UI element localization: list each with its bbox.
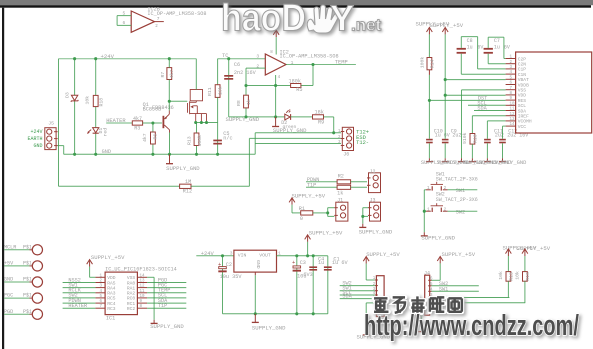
wire SCL oled: [468, 104, 506, 106]
svg-text:0: 0: [300, 216, 303, 222]
svg-text:R8: R8: [236, 100, 242, 106]
svg-text:T12-: T12-: [356, 140, 369, 146]
wire VBAT: [445, 79, 505, 81]
junction gnd R18: [94, 153, 97, 156]
wire C4 branch: [312, 256, 314, 314]
ground symbol SUPPLY_GND main rail: [166, 154, 173, 163]
junction source stub 3: [205, 121, 208, 124]
svg-text:R6: R6: [153, 134, 159, 140]
svg-text:2: 2: [444, 207, 447, 212]
wire source sense line: [196, 122, 218, 124]
svg-text:3: 3: [256, 54, 259, 60]
wire IC2B pin6: [117, 24, 131, 26]
connector J4 box: [425, 275, 430, 315]
svg-text:SUPPLY_+5V: SUPPLY_+5V: [430, 22, 464, 29]
resistor R7: [167, 68, 172, 80]
wire SW1 J4: [432, 290, 479, 292]
wire R1 to J1: [313, 212, 328, 214]
junction source stub 1: [194, 121, 197, 124]
wire R18 branch: [95, 59, 97, 155]
wire T12- line: [255, 143, 341, 145]
ground symbol SUPPLY_GND switches: [421, 232, 428, 236]
svg-text:VSS: VSS: [518, 88, 527, 94]
wire net SDA IC1 right: [147, 302, 186, 304]
svg-text:RA2: RA2: [127, 291, 136, 297]
svg-text:R16: R16: [525, 272, 531, 281]
svg-text:RC3: RC3: [107, 306, 116, 312]
wire SW2 to J7: [340, 285, 375, 287]
wire SDA oled: [474, 110, 506, 112]
junction C3 +5V: [295, 254, 298, 257]
wire C2N: [488, 63, 505, 65]
pin 2 oled C2N: [506, 63, 516, 65]
wire earth line J5 to R12: [59, 185, 180, 187]
op-amp IC2B: [131, 11, 154, 32]
svg-text:SUPPLY_GND: SUPPLY_GND: [166, 165, 200, 172]
wire R16 top: [524, 256, 526, 272]
wire net PGC IC1 right: [147, 287, 186, 289]
wire D3 branch: [74, 59, 76, 155]
wire +5V arrow mid down: [307, 242, 309, 256]
svg-text:GND: GND: [33, 143, 42, 149]
wire C6 vertical: [228, 59, 230, 117]
svg-text:RC0: RC0: [127, 296, 136, 302]
svg-text:FDB8436: FDB8436: [152, 105, 174, 111]
wire J7 gnd horiz: [366, 302, 375, 304]
pad circle GND: [30, 277, 43, 287]
pin 3 oled C1P: [506, 68, 516, 70]
svg-text:2: 2: [444, 186, 447, 191]
pin 6 oled VDDB: [506, 84, 516, 86]
wire J3 pin2: [363, 215, 368, 217]
top black border line: [0, 5, 591, 8]
resistor R15: [506, 272, 511, 282]
wire IREF horiz: [472, 115, 505, 117]
wire R16 bottom: [524, 281, 526, 303]
svg-text:R12: R12: [183, 189, 192, 195]
svg-text:SUPPLY_+5V: SUPPLY_+5V: [91, 254, 125, 261]
capacitor C10: [426, 139, 433, 144]
svg-text:T1P: T1P: [158, 303, 167, 309]
resistor R16: [523, 272, 528, 282]
svg-text:R11: R11: [207, 87, 213, 96]
svg-text:C1N: C1N: [518, 72, 527, 78]
pin 13 IC1 right: [137, 282, 147, 284]
wire IC2 pin2 input: [246, 67, 265, 69]
wire +5V J7 vert: [365, 264, 367, 280]
power arrow +5V J7: [363, 257, 369, 264]
ground symbol SUPPLY_GND oled C12: [499, 158, 506, 161]
svg-text:14: 14: [510, 123, 516, 127]
junction VBAT: [444, 78, 447, 81]
resistor R5: [291, 84, 301, 88]
svg-text:180k: 180k: [289, 78, 301, 84]
power arrow +5V mid: [305, 235, 311, 242]
svg-text:GND: GND: [4, 277, 13, 283]
svg-text:SUPPLY_+5V: SUPPLY_+5V: [517, 245, 551, 252]
wire VCOMH horiz: [487, 120, 505, 122]
svg-text:+5V: +5V: [4, 261, 14, 267]
pin 5 IC1 left: [95, 297, 105, 299]
svg-text:IREF: IREF: [518, 114, 529, 120]
svg-text:SDA: SDA: [477, 106, 487, 112]
capacitor C1: [324, 266, 332, 270]
svg-text:2: 2: [256, 64, 259, 70]
svg-text:R10: R10: [472, 134, 478, 143]
resistor R12: [180, 184, 191, 188]
svg-text:SDA: SDA: [342, 293, 352, 299]
wire J3 pin1: [363, 207, 368, 209]
svg-text:10u 35V: 10u 35V: [220, 274, 243, 280]
wire SCL pullup line: [432, 297, 510, 299]
wire R15 top: [507, 256, 509, 272]
junction gnd D3: [73, 153, 76, 156]
wire J1 pin2: [328, 215, 335, 217]
wire R14 bottom to C10: [428, 75, 430, 139]
wire C7 bottom down: [487, 54, 489, 64]
capacitor C7: [484, 48, 493, 54]
svg-text:12: 12: [510, 113, 516, 117]
junction +24V / R7: [168, 57, 171, 60]
pin 4 J4: [428, 290, 431, 292]
wire IREF down: [471, 116, 473, 134]
resistor R13: [194, 133, 199, 146]
svg-text:SUPPLY_GND: SUPPLY_GND: [359, 229, 393, 236]
wire C2 branch: [222, 256, 224, 314]
svg-text:13: 13: [510, 118, 516, 122]
wire VSS horiz: [462, 89, 506, 91]
svg-text:RA1: RA1: [127, 285, 136, 291]
pin 7 oled VSS: [506, 89, 516, 91]
svg-text:SUPPLY_GND: SUPPLY_GND: [494, 160, 526, 166]
svg-text:red: red: [103, 128, 109, 137]
wire SDA pullup line: [432, 302, 526, 304]
wire IC1 VSS down: [153, 277, 155, 320]
left black border: [2, 8, 4, 349]
svg-text:SUPPLY_+5V: SUPPLY_+5V: [366, 251, 400, 258]
wire R9 corner down: [333, 117, 335, 133]
svg-text:PGC: PGC: [4, 293, 13, 299]
wire VCOMH down: [486, 121, 488, 139]
wire Q1 emitter up: [168, 101, 170, 110]
resistor R1: [301, 211, 313, 215]
junction pin2 feedback: [244, 84, 247, 87]
wire R11 vertical top: [217, 59, 219, 85]
svg-text:6V3: 6V3: [303, 272, 312, 278]
svg-text:R18: R18: [99, 98, 105, 107]
svg-text:J2: J2: [370, 169, 376, 175]
svg-text:18k: 18k: [315, 110, 324, 116]
svg-text:J3: J3: [370, 197, 376, 203]
junction T12+ R9: [332, 131, 335, 134]
pin 5 oled VBAT: [506, 78, 516, 80]
wire SW2 to right: [448, 210, 478, 212]
power arrow +5V oled VDD: [442, 27, 448, 34]
wire VCC horiz: [503, 125, 506, 127]
wire T12 vertical to gnd rail: [254, 133, 256, 155]
wire pad PGC: [4, 297, 29, 299]
resistor R2a: [337, 180, 351, 184]
svg-text:10k: 10k: [218, 86, 224, 95]
wire IC2B pin5: [117, 15, 131, 17]
ground symbol SUPPLY_GND oled C11: [484, 158, 491, 161]
top window bar: [0, 0, 593, 5]
wire +24V down to J5 and earth line: [58, 59, 60, 187]
svg-text:SUPPLY_GND: SUPPLY_GND: [421, 234, 455, 241]
pin 9 IC1 right: [137, 302, 147, 304]
svg-text:10k: 10k: [84, 96, 90, 105]
wire switches common vertical: [423, 190, 425, 233]
svg-text:1: 1: [427, 207, 430, 212]
junction gate drive node: [168, 100, 171, 103]
svg-text:VBAT: VBAT: [518, 77, 529, 83]
svg-text:GND: GND: [255, 260, 261, 269]
svg-text:J1: J1: [337, 197, 343, 203]
junction +5V arrow mid: [306, 254, 309, 257]
svg-text:R7: R7: [160, 72, 166, 78]
power arrow +5V at R1: [289, 198, 295, 205]
power arrow +5V pullup R16: [522, 249, 528, 256]
svg-text:n/c: n/c: [223, 136, 232, 142]
power arrow +5V IC1: [87, 260, 93, 267]
wire C9 to gnd: [444, 143, 446, 158]
wire J7 gnd vert: [365, 303, 367, 332]
wire J1 pin tie vertical: [327, 208, 329, 217]
ground symbol SUPPLY_GND J7: [363, 331, 370, 335]
pin 7 IC1 left: [95, 307, 105, 309]
wire +5V J4 horiz: [432, 279, 441, 281]
svg-text:+24V: +24V: [30, 129, 42, 135]
pad circle +5V: [30, 261, 43, 271]
wire regulator gnd down: [254, 275, 256, 314]
junction gnd R6: [151, 153, 154, 156]
svg-text:4k7: 4k7: [142, 133, 148, 142]
junction output feedback: [311, 63, 314, 66]
junction gnd R13: [195, 153, 198, 156]
op-amp IC2: [265, 54, 286, 75]
svg-text:5: 5: [123, 10, 126, 16]
junction R3 R6: [151, 121, 154, 124]
wire +5V J4 vert: [439, 263, 441, 280]
wire J4 gnd horiz: [422, 307, 425, 309]
connector J1: [334, 202, 348, 221]
junction pin4 at supply gnd: [274, 115, 277, 118]
svg-text:1u: 1u: [318, 260, 324, 266]
ground symbol SUPPLY_GND opamp: [272, 117, 279, 127]
svg-text:1M: 1M: [185, 179, 191, 185]
wire +5V to IC1 pin1 horiz: [90, 276, 96, 278]
svg-text:VDD: VDD: [518, 93, 527, 99]
pin 3 J4: [428, 296, 431, 298]
pin 1 IC1 left: [95, 276, 105, 278]
wire TC line: [218, 58, 266, 60]
svg-text:C6: C6: [234, 62, 240, 68]
junction RES node: [428, 99, 431, 102]
IC voltage regulator box: [234, 250, 277, 272]
svg-text:C2P: C2P: [518, 56, 527, 62]
wire R3 to Q1 base: [143, 122, 162, 124]
wire R6 branch: [152, 123, 154, 154]
switch SW2 tact: [426, 203, 448, 212]
wire IC1 VSS right: [147, 276, 154, 278]
resistor R11: [215, 85, 220, 98]
wire R11 bottom: [217, 97, 219, 122]
svg-text:RC4: RC4: [107, 301, 116, 307]
wire net NSS2 IC1: [63, 282, 96, 284]
resistor R18: [93, 95, 98, 106]
svg-text:http://www.cndzz.com/: http://www.cndzz.com/: [364, 310, 579, 342]
pin 8 IC1 right: [137, 307, 147, 309]
wire pad GND: [4, 281, 29, 283]
capacitor C8: [457, 48, 466, 54]
svg-text:2n2 16V: 2n2 16V: [234, 70, 257, 76]
wire IC2 pin8 power: [275, 37, 277, 54]
wire J5 pin3 to gnd rail vert: [63, 146, 65, 155]
svg-text:.net: .net: [351, 16, 382, 35]
pin regulator GND down: [254, 272, 256, 275]
wire C7 top over: [488, 36, 504, 38]
svg-text:EARTH: EARTH: [27, 136, 42, 142]
svg-text:J6: J6: [343, 152, 349, 158]
ground symbol SUPPLY_GND IC1: [151, 320, 158, 324]
transistor Q2 MOSFET FDB8436 package outline: [190, 90, 202, 101]
svg-text:J5: J5: [48, 121, 54, 127]
wire +24V rail: [59, 58, 197, 60]
wire pad +5V: [4, 265, 29, 267]
pin 5 J4: [428, 285, 431, 287]
svg-text:RA4: RA4: [107, 285, 116, 291]
svg-text:SUPPLY_GND: SUPPLY_GND: [252, 324, 286, 331]
junction +24V / D3: [73, 57, 76, 60]
svg-text:RES: RES: [518, 98, 527, 104]
wire net PGD IC1 right: [147, 282, 186, 284]
svg-text:SUPPLY_GND: SUPPLY_GND: [226, 116, 260, 123]
svg-text:11: 11: [510, 108, 516, 112]
capacitor C11: [484, 139, 491, 144]
pin 2 J4: [428, 301, 431, 303]
ground symbol SUPPLY_GND oled VSS: [458, 158, 465, 161]
svg-text:IC1: IC1: [106, 316, 115, 322]
svg-text:C3: C3: [300, 260, 306, 266]
svg-text:6V: 6V: [477, 44, 483, 50]
svg-text:GND: GND: [102, 149, 111, 155]
connector J6: [341, 127, 354, 150]
wire net HEATER IC1: [63, 307, 96, 309]
pin 1 J4: [428, 307, 431, 309]
svg-text:C8: C8: [467, 38, 473, 44]
pad circle PGD: [30, 309, 43, 319]
wire J5 pin3 to gnd rail horiz: [58, 145, 64, 147]
wire C3 branch: [296, 256, 298, 314]
svg-text:10: 10: [140, 295, 146, 299]
svg-text:VCC: VCC: [518, 124, 527, 130]
pin 2 IC1 left: [95, 282, 105, 284]
svg-text:13: 13: [140, 280, 146, 284]
wire gate drive to MOSFET: [169, 100, 187, 102]
connector J5: [45, 128, 58, 150]
wire C10 to gnd: [428, 143, 430, 158]
junction +24V / R18: [94, 57, 97, 60]
wire Q1 collector down: [169, 133, 171, 155]
wire R2b to J2: [351, 186, 367, 188]
wire supply gnd line left: [229, 116, 285, 118]
svg-text:SDA: SDA: [518, 108, 527, 114]
wire C8 top down to C1P: [477, 37, 479, 69]
svg-text:7: 7: [157, 16, 160, 22]
capacitor C6: [224, 75, 233, 80]
watermark cndzz bottom: [364, 296, 579, 342]
LED D2 green: [285, 109, 291, 120]
svg-text:RA3: RA3: [107, 291, 116, 297]
junction reg gnd rail: [254, 312, 257, 315]
wire net SCL IC1 right: [147, 297, 186, 299]
pad circle PGC: [30, 293, 43, 303]
wire ESD line: [249, 137, 341, 139]
pin 10 IC1 right: [137, 297, 147, 299]
svg-text:C2: C2: [226, 262, 232, 268]
wire R13 branch: [196, 123, 198, 155]
wire R10 to gnd: [471, 144, 473, 158]
wire C1P: [478, 68, 506, 70]
svg-text:R14: R14: [429, 60, 435, 69]
wire SW1 to J7: [340, 290, 375, 292]
wire net SW1 IC1: [63, 287, 96, 289]
wire J3 gnd vertical: [362, 208, 364, 224]
svg-text:C2N: C2N: [518, 62, 527, 68]
svg-text:R15: R15: [508, 272, 514, 281]
svg-text:10k: 10k: [514, 271, 520, 280]
wire C7 top down to C2P: [503, 37, 505, 58]
wire VDD: [445, 94, 505, 96]
svg-text:SUPPLY_+5V: SUPPLY_+5V: [292, 192, 326, 199]
svg-text:10: 10: [510, 102, 516, 106]
IC U2 OLED driver box: [516, 52, 592, 133]
svg-text:4k7: 4k7: [133, 116, 142, 122]
svg-text:D3: D3: [64, 92, 70, 98]
wire C11 to gnd: [486, 143, 488, 158]
ground symbol SUPPLY_GND oled C9: [442, 158, 449, 161]
resistor R9: [313, 115, 324, 119]
power arrow supply above IC2: [273, 30, 279, 37]
wire C2P: [504, 58, 506, 60]
svg-text:100k: 100k: [419, 57, 425, 69]
wire +5V arrow down: [291, 205, 293, 213]
wire SW1 to right: [448, 189, 478, 191]
wire HEATER: [106, 122, 132, 124]
junction TC C6: [227, 57, 230, 60]
svg-text:RC1: RC1: [127, 301, 136, 307]
wire SCL to J7: [340, 294, 375, 296]
ground symbol SUPPLY_GND J3: [359, 224, 366, 228]
wire J1 pin1: [328, 207, 335, 209]
pin 6 J7: [375, 302, 378, 304]
pin IC2B output 7: [155, 21, 164, 23]
wire feedback line: [246, 85, 313, 87]
junction C4 +5V: [312, 254, 315, 257]
wire +5V VDD vertical: [444, 34, 446, 138]
svg-text:SUPPLY_GND: SUPPLY_GND: [150, 323, 184, 330]
svg-text:PGD: PGD: [4, 309, 13, 315]
capacitor C4: [309, 266, 317, 270]
wire C5 branch: [217, 123, 219, 155]
svg-text:10k: 10k: [498, 271, 504, 280]
resistor R10: [470, 134, 475, 145]
junction gnd C5: [216, 153, 219, 156]
resistor R6: [151, 132, 156, 144]
wire SW2 J4: [432, 285, 479, 287]
junction gnd Q1: [168, 153, 171, 156]
transistor Q2 MOSFET symbol: [188, 101, 207, 122]
